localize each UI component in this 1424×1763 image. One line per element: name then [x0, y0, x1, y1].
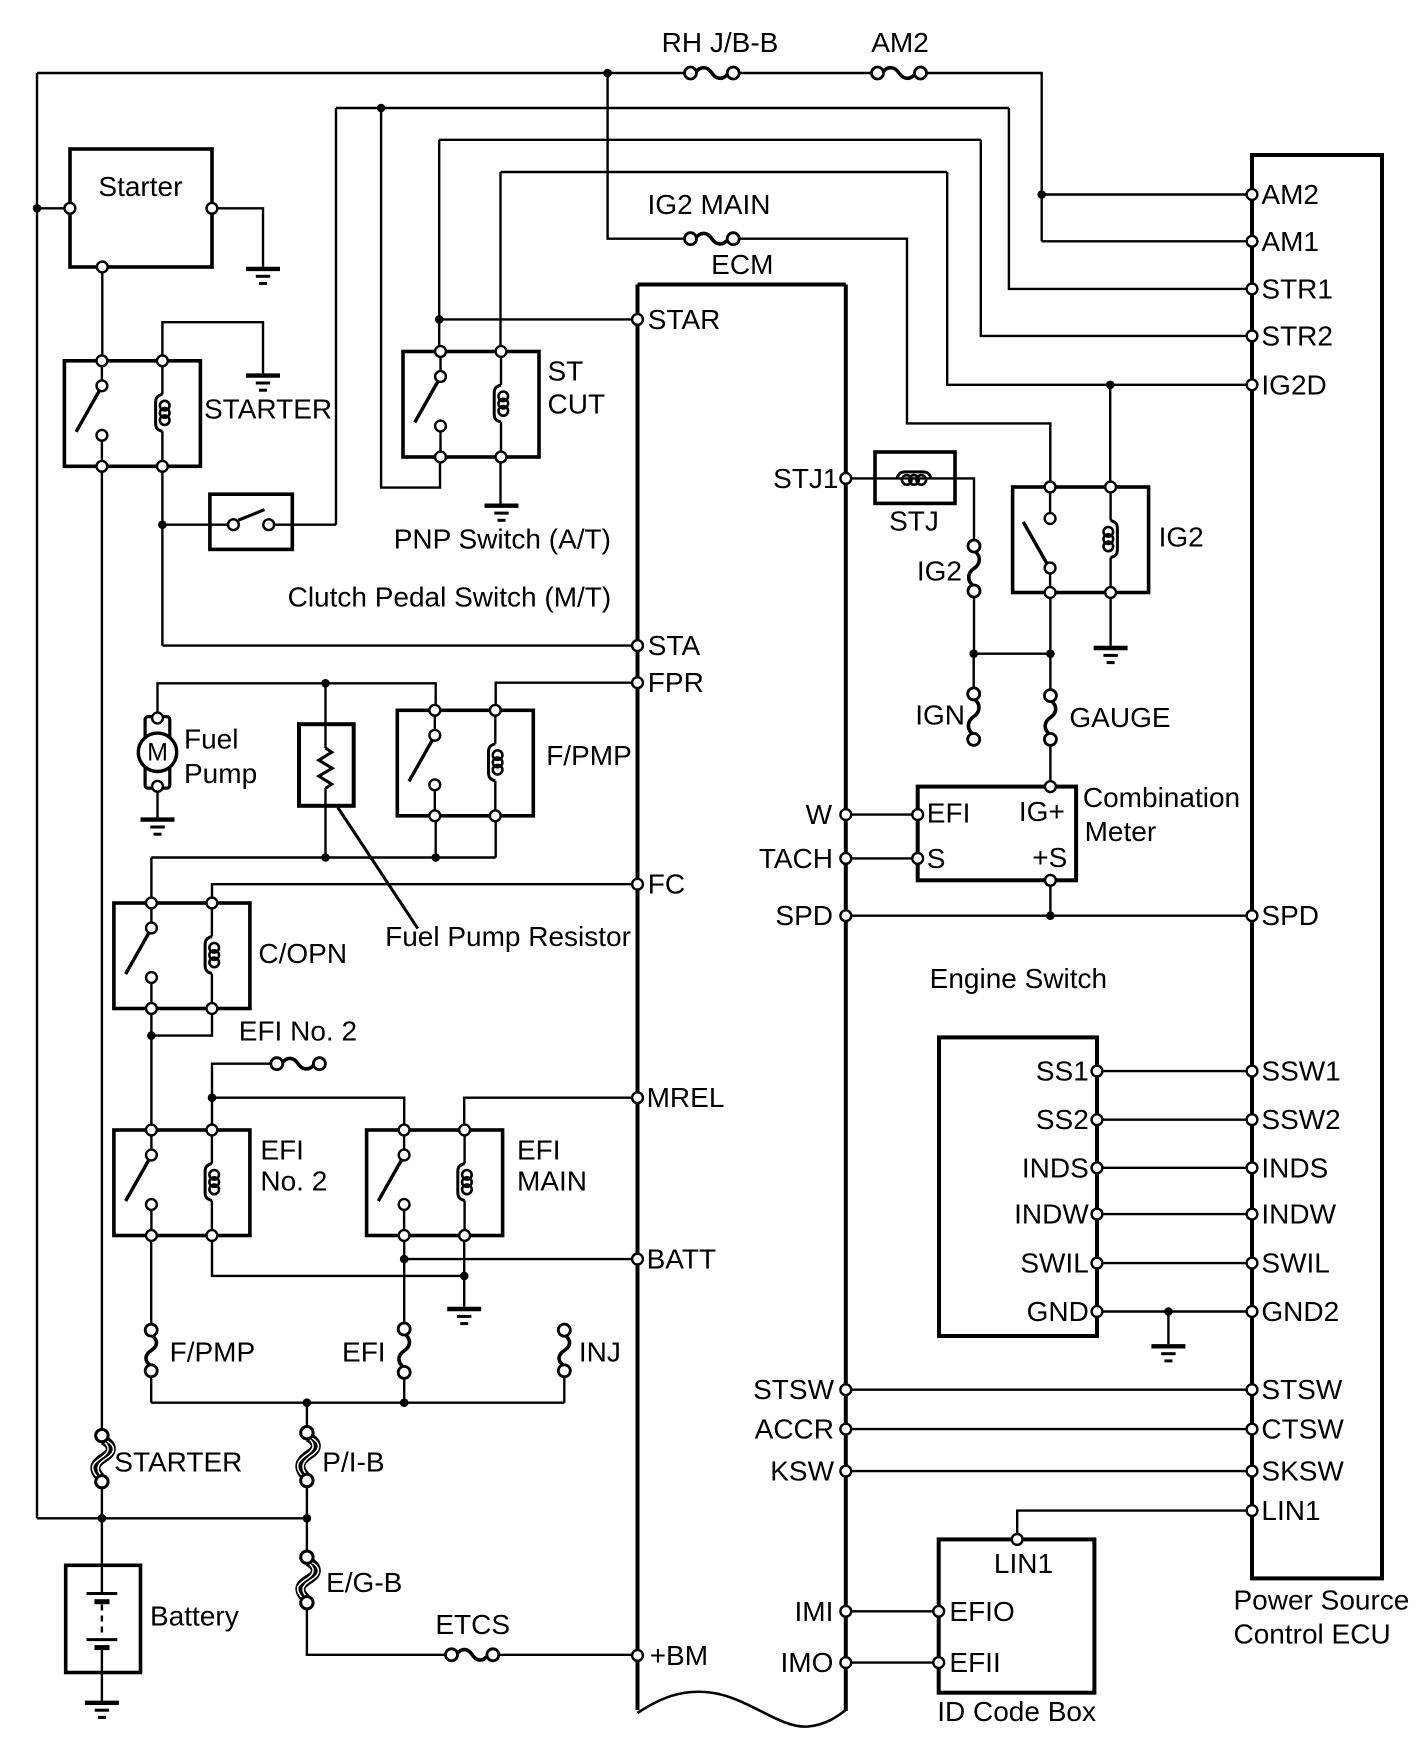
wire to IGN fuse	[973, 654, 975, 688]
fuse RH J/B-B	[685, 67, 740, 79]
pin STARTER relay	[157, 461, 168, 472]
svg-text:SWIL: SWIL	[1261, 1248, 1329, 1279]
svg-text:EFI: EFI	[517, 1134, 561, 1165]
svg-text:GAUGE: GAUGE	[1069, 702, 1170, 733]
pin IG+	[1045, 781, 1056, 792]
pin +S meter	[1045, 875, 1056, 886]
wire STR2 line	[439, 139, 981, 141]
svg-text:TACH: TACH	[759, 843, 833, 874]
svg-text:INJ: INJ	[579, 1337, 621, 1368]
pin starter B	[65, 203, 76, 214]
wire ETCS to +BM	[499, 1654, 637, 1656]
node AM2/AM1 branch	[1037, 190, 1046, 199]
wire INDW to INDW	[1097, 1213, 1252, 1215]
svg-text:EFI: EFI	[927, 798, 971, 829]
svg-text:Combination: Combination	[1083, 782, 1240, 813]
node IGN tap	[969, 649, 978, 658]
wire STJ1 to STJ box	[846, 477, 875, 479]
svg-text:No. 2: No. 2	[260, 1165, 327, 1196]
pin STCUT relay	[435, 346, 446, 357]
wire EFI MAIN coil ground lead	[463, 1236, 465, 1307]
svg-text:PNP Switch (A/T): PNP Switch (A/T)	[394, 524, 611, 555]
wire pump bus	[151, 856, 495, 858]
svg-text:MAIN: MAIN	[517, 1165, 587, 1196]
engine switch box	[939, 1037, 1097, 1336]
fuse IG2 MAIN	[685, 233, 740, 245]
svg-text:AM1: AM1	[1261, 226, 1319, 257]
pin FPMP relay	[490, 810, 501, 821]
wire clutch switch internal left	[210, 524, 228, 526]
wire F/PMP coil bottom	[495, 816, 497, 858]
svg-text:KSW: KSW	[770, 1456, 834, 1487]
ID code box	[939, 1539, 1095, 1692]
relay EFI MAIN	[367, 1130, 503, 1236]
battery plate short 1	[95, 1599, 110, 1604]
clutch switch contact right	[263, 519, 274, 530]
pin GND2 ecu	[1247, 1306, 1258, 1317]
wire +S to SPD	[1049, 886, 1051, 916]
wire clutch switch riser	[335, 108, 337, 525]
node GAUGE tap	[1046, 649, 1055, 658]
svg-text:EFI: EFI	[260, 1134, 304, 1165]
clutch switch contact left	[228, 519, 239, 530]
pin EFIMAIN relay	[459, 1230, 470, 1241]
pin STSW ecu	[1247, 1384, 1258, 1395]
svg-text:C/OPN: C/OPN	[258, 938, 347, 969]
ground ST CUT coil	[485, 506, 519, 521]
wire STARTER relay coil ground lead	[162, 322, 263, 373]
pin SS1 engine switch	[1092, 1066, 1103, 1077]
pointer line fuel pump resistor	[338, 808, 418, 929]
node STR1/ST CUT branch	[377, 104, 386, 113]
node GND2 ground tap	[1164, 1307, 1173, 1316]
node IG2 coil branch	[1106, 381, 1115, 390]
svg-text:IG2: IG2	[1159, 522, 1204, 553]
pin IG2 relay	[1105, 587, 1116, 598]
svg-text:STARTER: STARTER	[204, 394, 332, 425]
svg-text:IG+: IG+	[1019, 796, 1065, 827]
ECM bottom break line	[638, 1692, 846, 1727]
wire ST CUT switch riser	[438, 140, 440, 352]
wire KSW to SKSW	[846, 1470, 1252, 1472]
svg-text:SS2: SS2	[1036, 1104, 1089, 1135]
svg-text:RH J/B-B: RH J/B-B	[662, 27, 779, 58]
pin SS2 engine switch	[1092, 1114, 1103, 1125]
ECM box right edge	[844, 285, 848, 1712]
pin EFI meter	[912, 809, 923, 820]
pin SKSW ecu	[1247, 1466, 1258, 1477]
pin EFIMAIN relay	[459, 1125, 470, 1136]
fuse EFI No. 2	[271, 1058, 326, 1070]
pin KSW ecm	[840, 1466, 851, 1477]
relay EFI No.2	[114, 1130, 250, 1236]
pin BATT	[632, 1254, 643, 1265]
wire EFI No.2 switch to F/PMP fuse	[150, 1236, 152, 1325]
node EFI fuse tap	[400, 1398, 409, 1407]
wire IG2 MAIN to IG2 relay switch	[739, 239, 1050, 487]
coil STJ	[897, 472, 931, 485]
svg-text:+BM: +BM	[650, 1640, 708, 1671]
pin STAR	[632, 314, 643, 325]
wire starter to STARTER relay	[101, 267, 103, 361]
ground battery	[85, 1703, 119, 1718]
node top rail to IG2 MAIN	[603, 69, 612, 78]
wire C/OPN coil loop	[151, 1009, 212, 1036]
svg-text:IG2 MAIN: IG2 MAIN	[648, 189, 771, 220]
fuel pump capsule	[145, 717, 170, 789]
svg-text:SSW1: SSW1	[1261, 1056, 1340, 1087]
svg-text:IMI: IMI	[795, 1596, 834, 1627]
pin EFIMAIN relay	[399, 1230, 410, 1241]
pin COPN relay	[146, 1003, 157, 1014]
fusible link STARTER	[93, 1429, 114, 1488]
pin STR2 ecu	[1247, 331, 1258, 342]
wire IMI to EFIO	[846, 1610, 939, 1612]
clutch switch lever	[238, 510, 264, 521]
relay F/PMP	[397, 710, 533, 816]
svg-text:STR2: STR2	[1261, 320, 1333, 351]
svg-text:ETCS: ETCS	[435, 1609, 510, 1640]
pin FC	[632, 879, 643, 890]
svg-text:Power Source: Power Source	[1234, 1585, 1410, 1616]
wire to GAUGE fuse	[1049, 654, 1051, 690]
wire to AM2 pin	[1042, 193, 1252, 195]
ground EFI MAIN coil	[447, 1309, 481, 1324]
battery plate long 1	[87, 1592, 118, 1595]
node starter branch on left rail	[33, 204, 42, 213]
pin AM2 ecu	[1247, 189, 1258, 200]
pin SWIL engine switch	[1092, 1258, 1103, 1269]
svg-text:F/PMP: F/PMP	[170, 1337, 256, 1368]
svg-text:Fuel Pump Resistor: Fuel Pump Resistor	[385, 921, 631, 952]
svg-text:STA: STA	[648, 630, 701, 661]
pin IG2 relay	[1045, 587, 1056, 598]
wire E/G-B to ETCS	[307, 1609, 445, 1655]
wire STAR to ECM	[439, 318, 637, 320]
ECM box top edge	[638, 283, 846, 287]
wire IG2D drop	[947, 172, 1252, 385]
pin SPD ecu	[1247, 910, 1258, 921]
svg-text:P/I-B: P/I-B	[322, 1447, 384, 1478]
svg-text:ACCR: ACCR	[755, 1414, 834, 1445]
svg-text:STJ1: STJ1	[773, 463, 838, 494]
wire STR2 drop to ECU	[981, 140, 1252, 336]
ground STARTER relay coil	[246, 376, 280, 391]
wire STA to ECM	[162, 644, 637, 646]
wire IG2 coil ground lead	[1109, 593, 1111, 646]
wire IG2 relay coil feed	[1109, 385, 1111, 487]
pin AM1 ecu	[1247, 236, 1258, 247]
svg-text:FC: FC	[648, 869, 685, 900]
pin IG2 relay	[1045, 482, 1056, 493]
svg-text:E/G-B: E/G-B	[326, 1567, 402, 1598]
wire resistor top lead	[324, 683, 326, 748]
svg-text:IGN: IGN	[915, 699, 965, 730]
svg-text:FPR: FPR	[648, 667, 704, 698]
pin STJ1	[840, 473, 851, 484]
STJ box	[875, 452, 955, 503]
wire F/PMP switch bottom	[435, 816, 437, 858]
pin IMI	[840, 1606, 851, 1617]
wire IG2D line	[501, 171, 948, 173]
fusible link E/G-B	[298, 1551, 319, 1609]
wire ST CUT switch-bottom branch	[381, 108, 440, 488]
wire ST CUT coil ground lead	[499, 457, 501, 504]
pin STA	[632, 640, 643, 651]
wire STA riser	[161, 525, 163, 646]
ground IG2 coil	[1094, 648, 1128, 663]
svg-text:Starter: Starter	[98, 171, 182, 202]
pin +BM	[632, 1650, 643, 1661]
wire F/PMP switch feed	[158, 683, 436, 713]
wire F/PMP fuse to bus	[150, 1377, 152, 1403]
wire ign bus	[974, 653, 1051, 655]
svg-text:Fuel: Fuel	[184, 724, 238, 755]
svg-text:INDW: INDW	[1014, 1199, 1089, 1230]
pin EFIMAIN relay	[399, 1125, 410, 1136]
wire C/OPN switch bottom	[150, 1009, 152, 1036]
pin STCUT relay	[435, 452, 446, 463]
svg-text:CUT: CUT	[548, 389, 606, 420]
pin IG2 relay	[1105, 482, 1116, 493]
wire starter ground lead	[212, 208, 263, 266]
svg-text:MREL: MREL	[647, 1082, 725, 1113]
wire GAUGE to IG+	[1049, 746, 1051, 782]
svg-text:BATT: BATT	[647, 1244, 716, 1275]
node fuel pump resistor tap	[321, 679, 330, 688]
wire INDS to INDS	[1097, 1167, 1252, 1169]
pin STSW ecm	[840, 1384, 851, 1395]
svg-text:Battery: Battery	[150, 1601, 239, 1632]
pin INDS engine switch	[1092, 1162, 1103, 1173]
svg-text:Pump: Pump	[184, 758, 257, 789]
wire EFI No.2 fuse lead	[212, 1064, 271, 1098]
pin STARTER relay	[97, 461, 108, 472]
fuse GAUGE	[1044, 690, 1056, 746]
svg-text:STJ: STJ	[889, 505, 939, 536]
wire TACH to S	[846, 857, 918, 859]
pin fuel pump top	[152, 713, 163, 724]
fuel pump motor circle	[138, 733, 176, 771]
pin starter ST	[207, 203, 218, 214]
wire battery top lead	[101, 1565, 103, 1592]
svg-text:SWIL: SWIL	[1020, 1248, 1088, 1279]
pin SPD ecm	[840, 910, 851, 921]
combination meter box	[918, 787, 1076, 881]
node P/I-B tap	[303, 1398, 312, 1407]
svg-text:+S: +S	[1032, 842, 1067, 873]
fuse IGN	[968, 688, 980, 746]
wire GND to GND2	[1097, 1310, 1252, 1312]
svg-text:S: S	[927, 843, 946, 874]
fuse ETCS	[446, 1649, 499, 1661]
pin fuel pump bottom	[152, 781, 163, 792]
pin STARTER relay	[97, 355, 108, 366]
node clutch switch branch	[158, 520, 167, 529]
wire between RH J/B-B and AM2 fuses	[739, 72, 871, 74]
pin SSW2 ecu	[1247, 1114, 1258, 1125]
pin LIN1 ecu	[1247, 1505, 1258, 1516]
svg-text:ECM: ECM	[711, 249, 773, 280]
node BATT junction	[400, 1255, 409, 1264]
wire left rail down to battery	[36, 73, 38, 1518]
wire STARTER relay coil to clutch node	[161, 466, 163, 524]
resistor zigzag	[319, 748, 332, 788]
svg-text:STSW: STSW	[753, 1374, 834, 1405]
svg-text:Meter: Meter	[1085, 816, 1157, 847]
wire to clutch switch	[162, 524, 210, 526]
pin EFINO2 relay	[146, 1125, 157, 1136]
wire LIN1	[1017, 1511, 1252, 1535]
wire bus to C/OPN switch	[150, 858, 152, 904]
wire ST CUT coil riser	[499, 172, 501, 352]
wire STARTER relay switch to fusible link	[101, 466, 103, 1429]
fuse EFI	[398, 1323, 410, 1378]
ground fuel pump	[141, 820, 175, 835]
wire IG2 relay switch bottom lead	[1049, 593, 1051, 654]
pin COPN relay	[207, 898, 218, 909]
pin IG2D ecu	[1247, 379, 1258, 390]
ECM box left edge	[636, 285, 640, 1711]
svg-text:IMO: IMO	[781, 1647, 834, 1678]
wire clutch switch to STR1 riser	[292, 524, 336, 526]
pin W	[840, 809, 851, 820]
fuse F/PMP	[145, 1324, 157, 1377]
fuel pump resistor box	[299, 724, 354, 806]
fuse INJ	[558, 1324, 570, 1377]
wire ACCR to CTSW	[846, 1428, 1252, 1430]
starter motor box	[70, 149, 212, 267]
battery dashed link	[101, 1605, 103, 1638]
battery plate short 2	[95, 1645, 110, 1650]
svg-text:LIN1: LIN1	[1261, 1495, 1320, 1526]
svg-text:ST: ST	[548, 356, 584, 387]
node SPD junction	[1046, 911, 1055, 920]
wire bus to P/I-B	[306, 1403, 308, 1427]
wire EFI fuse bottom lead	[403, 1379, 405, 1403]
ground starter	[246, 269, 280, 284]
svg-text:EFI No. 2: EFI No. 2	[239, 1016, 357, 1047]
wire IMO to EFII	[846, 1661, 939, 1663]
pin GND engine switch	[1092, 1306, 1103, 1317]
wire W to EFI	[846, 813, 918, 815]
wire FPR to F/PMP coil	[496, 683, 638, 711]
pin STARTER relay	[157, 355, 168, 366]
pin CTSW ecu	[1247, 1424, 1258, 1435]
wire EFI No.2 coil feed	[211, 1098, 213, 1130]
svg-text:STR1: STR1	[1261, 273, 1333, 304]
wire SS2 to SSW2	[1097, 1118, 1252, 1120]
wire AM2 fuse to AM2/AM1 drop	[927, 73, 1042, 241]
wire battery rail	[37, 1517, 307, 1519]
pin INDW ecu	[1247, 1209, 1258, 1220]
svg-text:IG2D: IG2D	[1261, 369, 1326, 400]
wire EFI No.2 coil bottom lead	[212, 1236, 464, 1276]
svg-text:ID Code Box: ID Code Box	[937, 1696, 1096, 1727]
node STAR junction	[435, 315, 444, 324]
svg-text:W: W	[806, 799, 833, 830]
pin S meter	[912, 853, 923, 864]
node F/PMP switch to bus	[431, 853, 440, 862]
wire STR1 drop to ECU	[1009, 108, 1252, 289]
svg-text:Clutch Pedal Switch (M/T): Clutch Pedal Switch (M/T)	[288, 582, 612, 613]
pin IMO	[840, 1657, 851, 1668]
svg-text:Control ECU: Control ECU	[1234, 1619, 1391, 1650]
pin EFINO2 relay	[207, 1230, 218, 1241]
svg-text:EFI: EFI	[342, 1337, 386, 1368]
node MREL left junction	[208, 1093, 217, 1102]
wire C/OPN to EFI No.2 relay	[150, 1036, 152, 1130]
pin STR1 ecu	[1247, 284, 1258, 295]
fuse AM2	[872, 67, 927, 79]
wire STJ internal	[875, 477, 955, 479]
pin TACH	[840, 853, 851, 864]
battery plate long 2	[87, 1638, 118, 1641]
node EFI MAIN coil ground junction	[460, 1272, 469, 1281]
pin FPMP relay	[429, 705, 440, 716]
svg-text:STAR: STAR	[648, 304, 721, 335]
node battery rail left	[98, 1514, 107, 1523]
wire BATT to EFI MAIN switch	[404, 1258, 637, 1260]
wire battery bottom lead	[101, 1650, 103, 1701]
wire fuel pump ground lead	[156, 792, 158, 818]
pin COPN relay	[146, 898, 157, 909]
wire SPD	[846, 915, 1252, 917]
power source control ECU box	[1252, 155, 1382, 1578]
pin SWIL ecu	[1247, 1258, 1258, 1269]
wire INJ fuse to bus	[563, 1377, 565, 1403]
relay ST CUT	[403, 352, 539, 458]
svg-text:SSW2: SSW2	[1261, 1104, 1340, 1135]
svg-text:CTSW: CTSW	[1261, 1414, 1344, 1445]
pin INDW engine switch	[1092, 1209, 1103, 1220]
wire SS1 to SSW1	[1097, 1070, 1252, 1072]
wire STJ to IG2 fuse	[955, 478, 974, 539]
pin ACCR ecm	[840, 1424, 851, 1435]
wire clutch switch internal right	[274, 524, 292, 526]
svg-text:SS1: SS1	[1036, 1056, 1089, 1087]
wire P/I-B to E/G-B	[306, 1487, 308, 1551]
pin FPR	[632, 677, 643, 688]
wire main battery feed top rail	[37, 72, 684, 74]
wire IG2 fuse to bus	[973, 597, 975, 654]
wire MREL to EFI MAIN coil	[464, 1098, 637, 1130]
wire IG2 MAIN branch drop	[608, 73, 684, 239]
relay STARTER	[64, 361, 200, 467]
pin INDS ecu	[1247, 1162, 1258, 1173]
pin LIN1 id box	[1012, 1534, 1023, 1545]
fuse IG2	[968, 540, 980, 597]
wire STARTER link to battery rail	[101, 1488, 103, 1565]
pin EFINO2 relay	[146, 1230, 157, 1241]
svg-text:INDW: INDW	[1261, 1199, 1336, 1230]
pin starter bottom	[97, 262, 108, 273]
pin MREL	[632, 1092, 643, 1103]
node resistor to bus	[321, 853, 330, 862]
wire GND2 ground lead	[1167, 1312, 1169, 1345]
pin SSW1 ecu	[1247, 1066, 1258, 1077]
pin EFINO2 relay	[207, 1125, 218, 1136]
wire EFI MAIN switch to EFI fuse	[403, 1236, 405, 1323]
svg-text:GND2: GND2	[1261, 1296, 1339, 1327]
svg-text:M: M	[147, 738, 168, 766]
battery box	[66, 1565, 141, 1672]
svg-text:SPD: SPD	[1261, 900, 1319, 931]
svg-text:Engine Switch: Engine Switch	[930, 963, 1107, 994]
wire resistor bottom lead	[324, 788, 326, 857]
svg-text:LIN1: LIN1	[994, 1548, 1053, 1579]
svg-text:AM2: AM2	[871, 27, 929, 58]
